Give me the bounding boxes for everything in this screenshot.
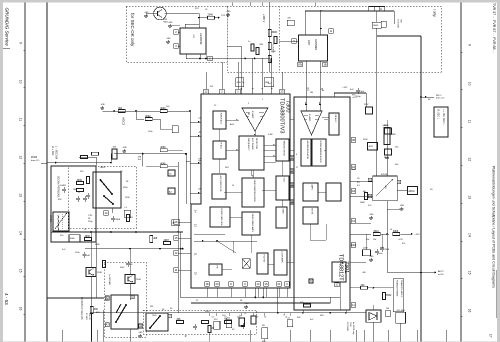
svg-text:TDA8802 PHASE: TDA8802 PHASE	[395, 280, 398, 297]
svg-text:7300: 7300	[285, 100, 291, 112]
svg-text:100n: 100n	[148, 131, 152, 133]
svg-text:INTERCARRIER MIXER: INTERCARRIER MIXER	[319, 141, 322, 163]
svg-text:AFC2: AFC2	[438, 270, 444, 273]
svg-text:10: 10	[19, 80, 23, 84]
svg-text:MUTE: MUTE	[310, 209, 312, 215]
svg-text:C8: C8	[205, 9, 207, 11]
svg-text:1n: 1n	[244, 313, 246, 315]
svg-text:DETECTOR: DETECTOR	[255, 138, 257, 150]
svg-text:NOISE GATE GEN: NOISE GATE GEN	[220, 209, 223, 227]
svg-text:IF AMP: IF AMP	[308, 114, 311, 122]
svg-text:H: H	[330, 29, 332, 33]
svg-text:7348: 7348	[97, 272, 103, 274]
svg-text:AGC: AGC	[230, 123, 235, 126]
svg-text:for NSTD IF SEC-OK: for NSTD IF SEC-OK	[80, 297, 83, 320]
svg-text:VIDEO DEMODULATOR: VIDEO DEMODULATOR	[253, 180, 256, 203]
svg-text:9: 9	[468, 44, 472, 46]
svg-text:for NSTD: for NSTD	[272, 44, 275, 54]
svg-text:R: R	[185, 335, 187, 338]
svg-text:GND: GND	[167, 38, 172, 40]
svg-text:L3461: L3461	[60, 185, 67, 187]
svg-text:19: 19	[198, 158, 202, 162]
svg-text:GN13: GN13	[100, 167, 106, 169]
svg-text:L3461: L3461	[49, 215, 52, 222]
svg-text:14: 14	[468, 233, 472, 237]
svg-text:13A: 13A	[351, 243, 356, 247]
svg-text:2040: 2040	[208, 14, 214, 17]
svg-text:15: 15	[468, 271, 472, 275]
svg-text:IF SEC: IF SEC	[85, 313, 87, 320]
svg-text:TDA8812T: TDA8812T	[338, 254, 344, 281]
svg-text:PLL FILT: PLL FILT	[262, 255, 264, 264]
svg-text:1k: 1k	[232, 185, 234, 187]
svg-text:+5V: +5V	[192, 34, 194, 38]
svg-text:STC 36R: STC 36R	[397, 310, 406, 312]
svg-text:for SECAM: for SECAM	[108, 274, 111, 285]
svg-text:+12V: +12V	[415, 234, 421, 236]
svg-text:16: 16	[468, 309, 472, 313]
svg-text:100n: 100n	[75, 252, 79, 254]
svg-text:13: 13	[468, 195, 472, 199]
svg-text:16: 16	[19, 307, 23, 311]
svg-text:IF AGC: IF AGC	[219, 143, 222, 150]
svg-text:7A: 7A	[352, 219, 355, 223]
svg-text:DY/CHER: DY/CHER	[346, 322, 348, 332]
svg-text:GND: GND	[370, 214, 375, 216]
svg-text:300K: 300K	[272, 31, 278, 34]
svg-text:1u: 1u	[248, 41, 250, 43]
svg-text:GN07: GN07	[360, 202, 366, 204]
svg-text:3308: 3308	[115, 219, 121, 221]
svg-text:A2: A2	[106, 296, 110, 300]
svg-text:GN: GN	[298, 63, 302, 67]
svg-text:AF DEMODULATOR: AF DEMODULATOR	[306, 141, 309, 160]
svg-text:TDA8800T/V3: TDA8800T/V3	[279, 98, 285, 133]
svg-text:10: 10	[468, 82, 472, 86]
svg-text:3532: 3532	[386, 294, 392, 297]
svg-text:TUNER AGC: TUNER AGC	[219, 113, 222, 125]
svg-text:for SEC-OK only: for SEC-OK only	[130, 13, 135, 47]
svg-text:A1: A1	[139, 324, 143, 328]
svg-text:U: U	[380, 7, 382, 11]
svg-text:1307: 1307	[307, 40, 310, 46]
svg-text:AGC DETECTOR: AGC DETECTOR	[219, 176, 222, 192]
svg-text:58/: 58/	[262, 325, 265, 327]
svg-text:430: 430	[361, 284, 366, 287]
svg-text:to DS: to DS	[438, 273, 444, 276]
svg-text:4 - 53: 4 - 53	[4, 293, 9, 305]
svg-text:17: 17	[489, 334, 493, 338]
svg-text:GN05: GN05	[391, 134, 397, 136]
svg-text:13: 13	[19, 193, 23, 197]
svg-text:VIDEO IDENT AMPL: VIDEO IDENT AMPL	[251, 214, 254, 234]
svg-text:3001: 3001	[373, 230, 379, 233]
svg-text:L - SECAM: L - SECAM	[55, 146, 59, 159]
svg-text:4060: 4060	[160, 146, 166, 149]
svg-text:2206: 2206	[384, 249, 390, 251]
svg-text:4087: 4087	[164, 239, 170, 242]
svg-text:for NSTD only: for NSTD only	[352, 322, 354, 335]
svg-text:I only: I only	[433, 9, 437, 17]
svg-text:PG52: PG52	[31, 156, 38, 159]
svg-text:FREQUENCY: FREQUENCY	[247, 138, 249, 151]
svg-text:TVR 37 ... FVR 87 ... FVR 88: TVR 37 ... FVR 87 ... FVR 88 ...	[492, 3, 496, 54]
svg-text:10k: 10k	[148, 117, 151, 119]
svg-text:IF AMP: IF AMP	[251, 111, 254, 119]
svg-text:1B: 1B	[323, 63, 326, 67]
svg-text:7346: 7346	[136, 279, 142, 281]
svg-text:GND: GND	[400, 205, 405, 207]
svg-text:4.4M: 4.4M	[268, 134, 273, 136]
svg-text:GND: GND	[227, 11, 232, 13]
svg-text:3936: 3936	[77, 179, 83, 182]
svg-text:GND: GND	[169, 22, 174, 24]
svg-text:390: 390	[94, 308, 99, 311]
svg-text:9: 9	[19, 42, 23, 44]
svg-text:L938CM: L938CM	[199, 33, 203, 45]
svg-text:AMPL: AMPL	[310, 185, 313, 191]
svg-text:1n: 1n	[242, 82, 244, 84]
svg-text:STC: STC	[195, 8, 200, 10]
svg-text:10k: 10k	[366, 239, 369, 241]
svg-text:11: 11	[468, 120, 472, 124]
svg-text:H + PAL: H + PAL	[51, 146, 55, 156]
svg-text:A3: A3	[352, 189, 356, 193]
svg-text:TBT: TBT	[400, 19, 402, 24]
svg-text:SIF AGC: SIF AGC	[334, 115, 337, 123]
svg-text:GND: GND	[145, 12, 150, 14]
svg-text:LM358M: LM358M	[314, 39, 318, 51]
svg-text:15: 15	[19, 269, 23, 273]
svg-text:L + PAL SEC L: L + PAL SEC L	[442, 109, 445, 125]
svg-text:TDA8812 L-MCLG: TDA8812 L-MCLG	[400, 280, 403, 298]
svg-text:TRAILING EDGE: TRAILING EDGE	[282, 141, 285, 157]
svg-text:from CO: from CO	[436, 97, 445, 100]
svg-text:+12V: +12V	[398, 239, 403, 241]
svg-text:GND: GND	[245, 303, 250, 305]
svg-text:4045: 4045	[160, 162, 166, 165]
svg-text:394: 394	[118, 107, 123, 110]
svg-text:981 2: 981 2	[436, 95, 442, 97]
svg-text:A7: A7	[106, 323, 110, 327]
svg-text:GND: GND	[139, 332, 144, 334]
svg-text:3936: 3936	[85, 235, 91, 238]
svg-text:408: 408	[153, 237, 158, 240]
svg-text:1k: 1k	[390, 229, 392, 231]
svg-text:12: 12	[468, 157, 472, 161]
svg-text:11: 11	[19, 118, 23, 122]
svg-text:GN05: GN05	[373, 25, 379, 27]
svg-text:100n: 100n	[378, 253, 382, 255]
svg-text:281 30: 281 30	[88, 313, 90, 320]
svg-text:47k: 47k	[402, 243, 405, 245]
svg-text:GRUNDIG Service: GRUNDIG Service	[4, 8, 9, 47]
svg-text:STC/36K: STC/36K	[397, 19, 399, 28]
svg-text:AFC2: AFC2	[409, 190, 416, 193]
svg-text:+380 V: +380 V	[262, 14, 266, 23]
svg-text:13-: 13-	[357, 178, 360, 180]
svg-text:GATE: GATE	[281, 209, 284, 215]
svg-text:GND: GND	[123, 147, 128, 149]
svg-text:GND: GND	[101, 104, 106, 106]
svg-text:LOOP AMPL: LOOP AMPL	[280, 252, 283, 264]
svg-text:AGC2: AGC2	[122, 117, 126, 126]
svg-text:14: 14	[19, 231, 23, 235]
svg-text:306: 306	[177, 318, 182, 321]
svg-text:Platinenabbildungen und Schalt: Platinenabbildungen und Schaltpläne / La…	[492, 166, 496, 288]
svg-text:+12V: +12V	[342, 87, 348, 89]
svg-text:3905: 3905	[393, 230, 399, 233]
svg-text:VCO: VCO	[282, 178, 284, 183]
svg-text:GND: GND	[370, 256, 375, 258]
svg-text:M: SEC L: M: SEC L	[437, 109, 440, 120]
svg-text:10k: 10k	[373, 239, 376, 241]
svg-text:AGC PHASE: AGC PHASE	[251, 138, 254, 150]
svg-text:from CO: from CO	[31, 159, 40, 162]
svg-text:12: 12	[19, 155, 23, 159]
